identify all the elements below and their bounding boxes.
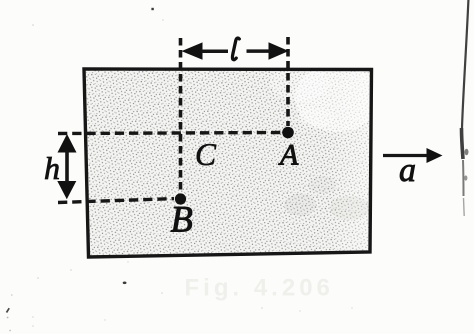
faint print-through mottling <box>284 194 316 216</box>
svg-text:Fig. 4.206: Fig. 4.206 <box>185 275 334 302</box>
dimension h shaft <box>65 150 69 183</box>
dimension h up arrowhead <box>58 134 77 153</box>
label l <box>232 38 239 60</box>
plate border <box>84 69 372 257</box>
node B dot <box>175 193 186 204</box>
dimension l shaft right <box>247 49 271 53</box>
svg-text:a: a <box>399 152 416 189</box>
wire vertical dashed line through A (right construction line) <box>286 37 290 126</box>
dimension l shaft left <box>201 49 228 53</box>
stray speckles <box>151 8 153 10</box>
dimension l right arrowhead <box>269 42 289 59</box>
svg-text:h: h <box>44 150 60 186</box>
acceleration arrow a shaft <box>383 154 428 157</box>
wire horizontal dashed line to B <box>58 199 174 203</box>
wire horizontal dashed line to A <box>58 133 281 134</box>
wire vertical dashed line through B (left construction line) <box>179 38 183 192</box>
acceleration arrow a head <box>427 148 443 163</box>
rectangle body (shaded plate) <box>84 69 372 257</box>
dimension l left arrowhead <box>182 42 203 59</box>
svg-text:B: B <box>171 199 193 240</box>
node A dot <box>282 127 294 139</box>
page edge line at right <box>462 0 469 128</box>
svg-text:C: C <box>195 137 217 172</box>
lighter band near right edge of plate <box>330 72 371 252</box>
dimension h down arrowhead <box>57 181 76 199</box>
svg-text:A: A <box>278 139 299 172</box>
